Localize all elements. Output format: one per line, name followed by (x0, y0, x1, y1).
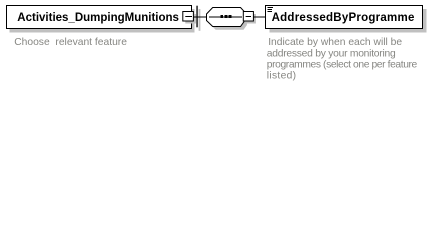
complex content icon (268, 7, 274, 12)
collapse button (right, minus) (243, 12, 253, 22)
connector rail shadow (199, 9, 201, 31)
svg-text:addressed by your monitoring: addressed by your monitoring (267, 48, 396, 59)
element box Activities_DumpingMunitions (7, 6, 192, 29)
sequence dot 2 (224, 15, 227, 18)
wire from sequence to child element (253, 16, 265, 18)
collapse button shadow (left) (185, 14, 196, 24)
svg-text:Activities_DumpingMunitions: Activities_DumpingMunitions (17, 12, 179, 24)
svg-text:listed): listed) (267, 71, 297, 82)
wire from rail to sequence (193, 16, 206, 18)
sequence dot 3 (229, 15, 232, 18)
svg-text:Indicate by when each will be: Indicate by when each will be (268, 37, 402, 48)
sequence compositor shadow (210, 11, 247, 30)
collapse button (left, minus) (183, 12, 194, 22)
sequence dot 1 (220, 15, 223, 18)
element box Activities_DumpingMunitions shadow (10, 9, 195, 33)
element box AddressedByProgramme shadow (270, 9, 427, 33)
collapse button shadow (right) (246, 14, 256, 24)
connector rail (196, 6, 197, 28)
svg-text:AddressedByProgramme: AddressedByProgramme (272, 12, 415, 24)
svg-text:programmes (select one per fea: programmes (select one per feature (267, 60, 418, 71)
sequence line (209, 16, 242, 18)
sequence compositor (octagon) (207, 8, 244, 27)
annotation: AddressedByProgramme description (267, 37, 418, 82)
svg-text:Choose relevant feature: Choose relevant feature (14, 37, 127, 48)
element box AddressedByProgramme (266, 6, 423, 29)
